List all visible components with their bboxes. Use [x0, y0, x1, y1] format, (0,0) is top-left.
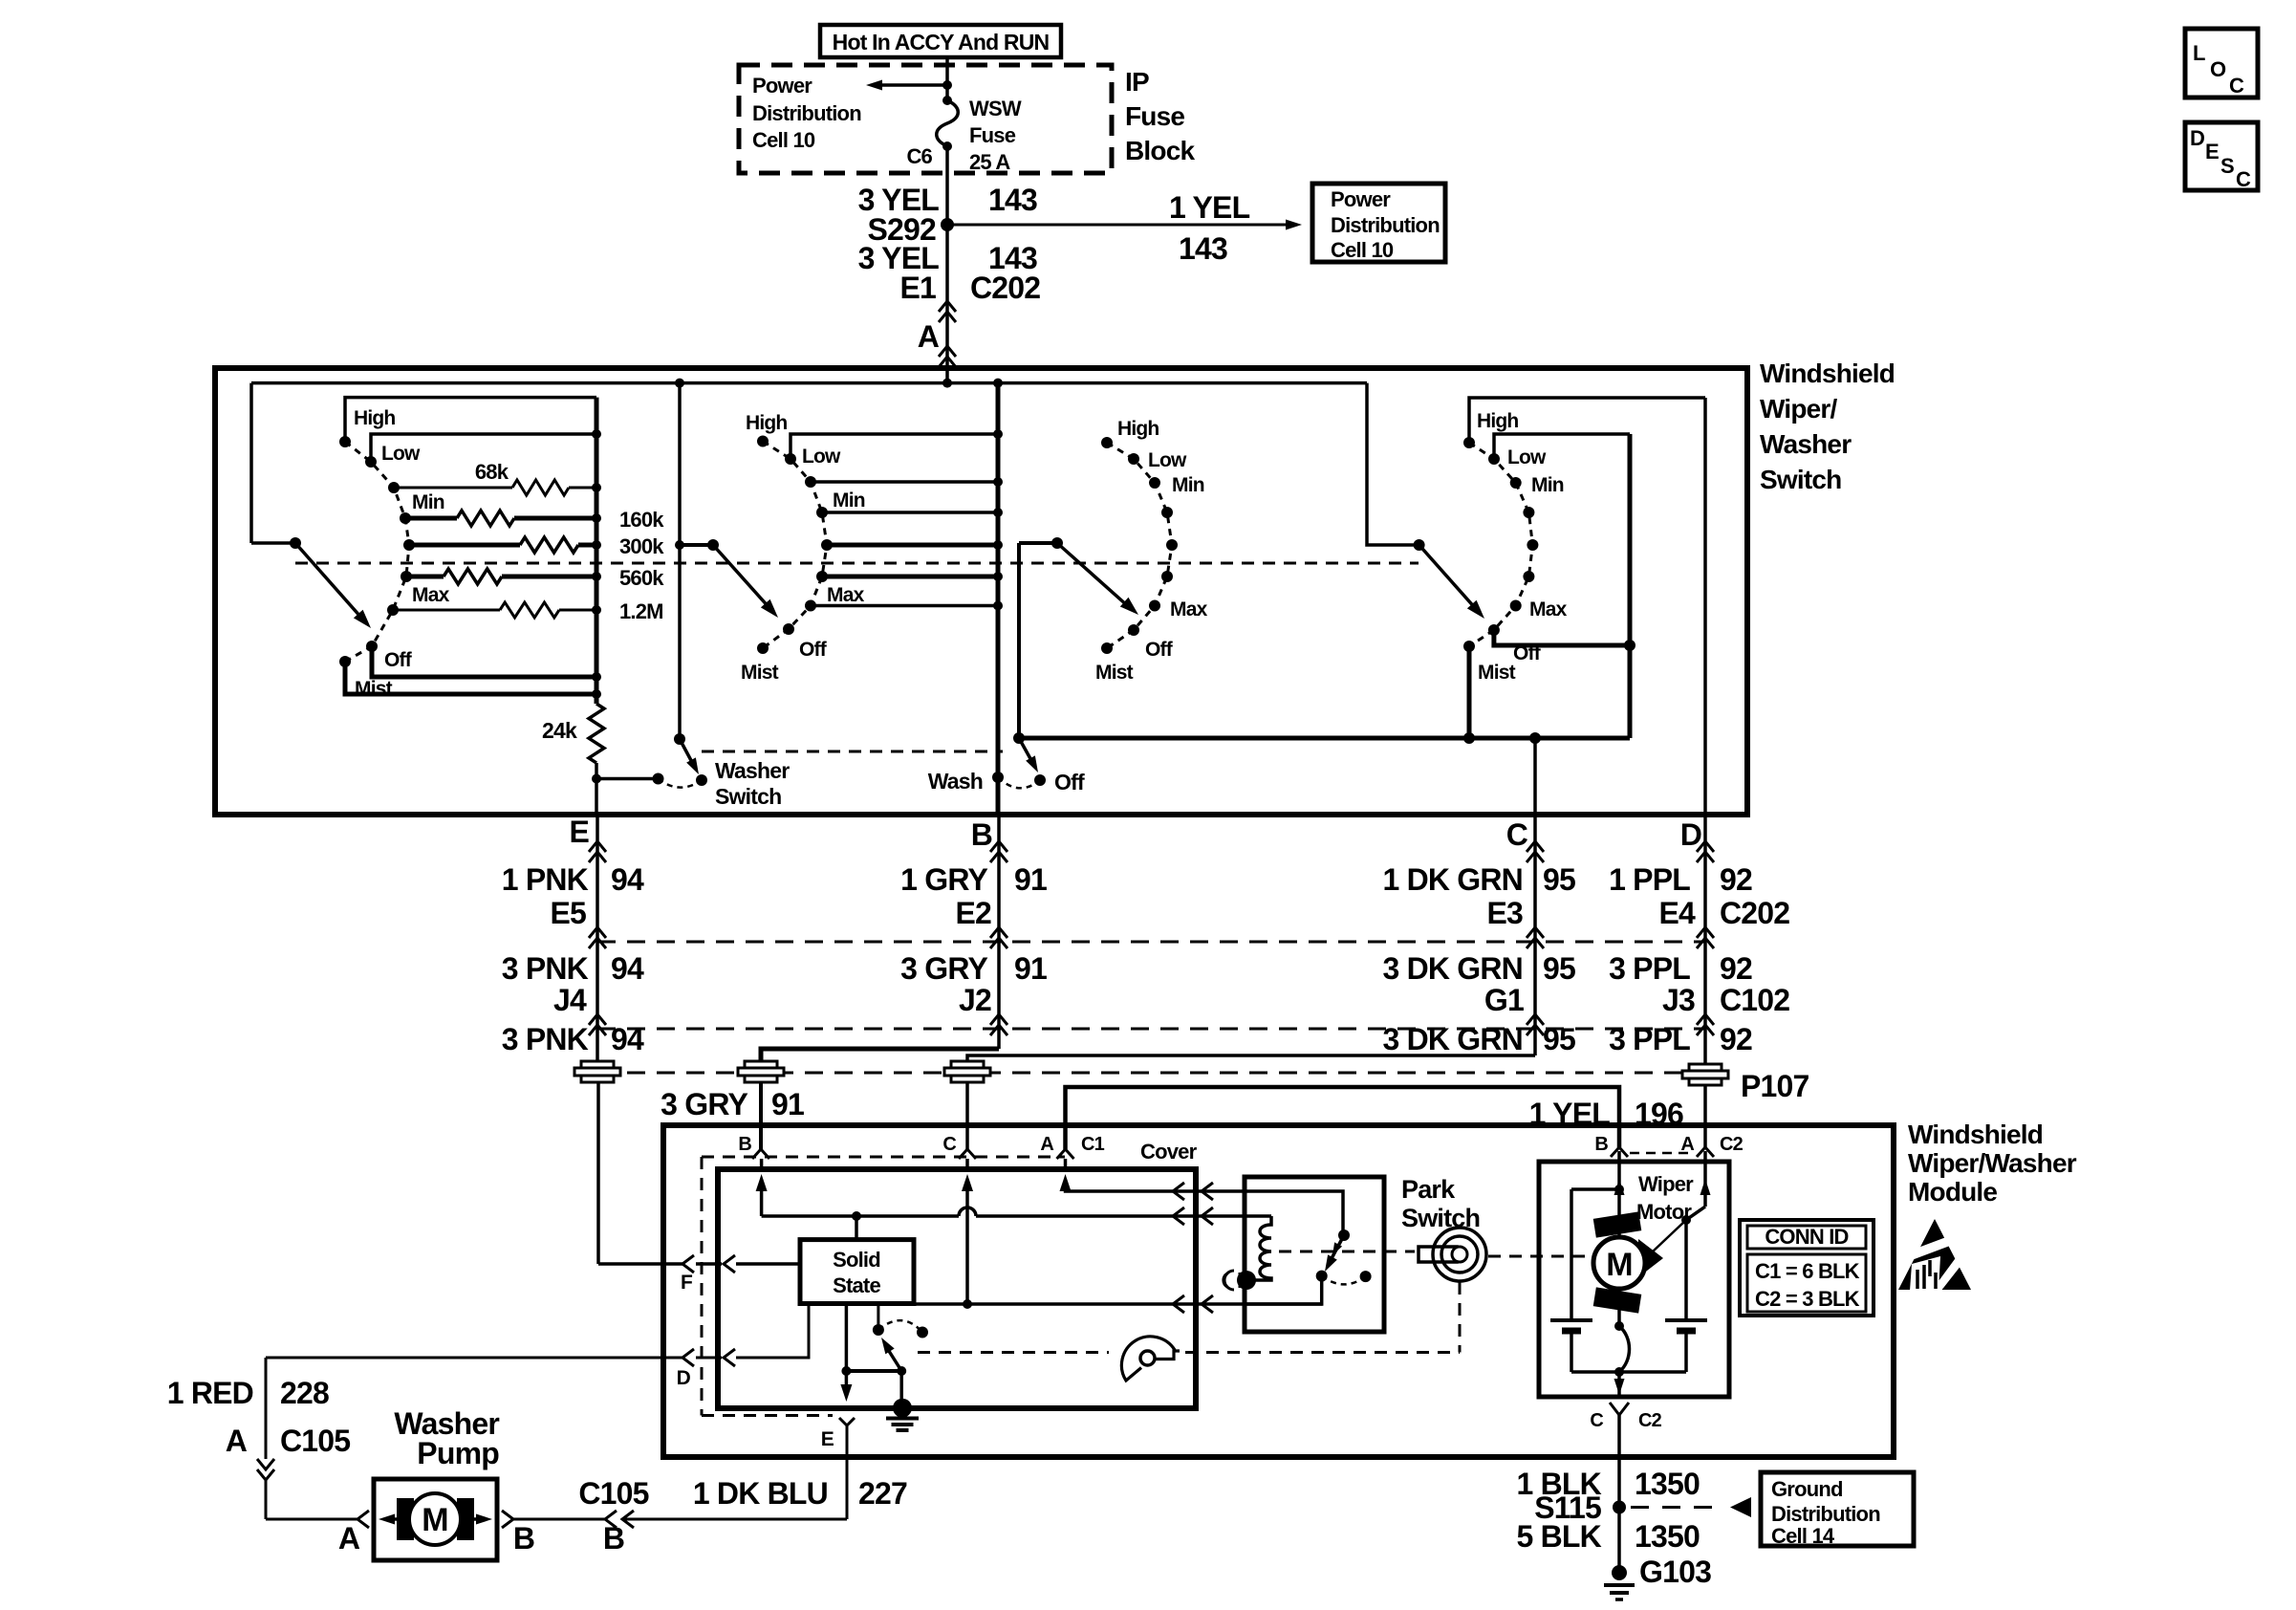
wire arrow to Power Distribution (left) inside fuse block: [880, 83, 947, 87]
svg-text:Power: Power: [752, 74, 812, 98]
switch 2 Max contact wire to B bus: [805, 600, 816, 612]
connector C102 dashed line: [597, 1028, 1705, 1031]
svg-text:91: 91: [1014, 862, 1047, 897]
svg-text:143: 143: [988, 183, 1037, 217]
junction dot: feed bus to B output bus: [993, 379, 1003, 388]
svg-text:High: High: [746, 412, 787, 434]
svg-text:F: F: [681, 1272, 693, 1294]
connector C202 chevrons (E5): [589, 927, 606, 938]
svg-text:1 GRY: 1 GRY: [900, 862, 987, 897]
svg-text:Wash: Wash: [928, 769, 983, 794]
legend box DESC (top right): [2185, 122, 2258, 190]
case ground symbol: [1239, 1273, 1242, 1288]
switch 1 contact arc (dashed): [345, 442, 409, 662]
wash contact on B bus: [992, 772, 1004, 783]
wire: pin F input to solid state: [596, 1081, 600, 1264]
module internal ground: [893, 1399, 912, 1418]
dashed reference to Ground Distribution Cell 14: [1631, 1506, 1716, 1509]
junction dot solid state top feed: [852, 1211, 861, 1221]
svg-text:Park: Park: [1401, 1175, 1456, 1204]
park switch blade top contact: [1338, 1229, 1350, 1241]
svg-text:High: High: [354, 407, 395, 429]
switch 2 High contact: [757, 436, 769, 447]
switch 4 contact arc (dashed): [1469, 443, 1532, 646]
connector C102 chevrons (G1): [1527, 1014, 1544, 1025]
svg-text:Off: Off: [799, 639, 828, 661]
grommet on pin E wire at P107: [581, 1061, 614, 1068]
connector C105 chevrons (down): [257, 1459, 274, 1469]
junction dot on feed wire: [942, 80, 952, 90]
svg-text:Distribution: Distribution: [752, 101, 861, 125]
svg-text:1 DK GRN: 1 DK GRN: [1382, 862, 1523, 897]
svg-text:1350: 1350: [1635, 1519, 1700, 1554]
svg-text:Max: Max: [412, 584, 450, 606]
svg-text:State: State: [833, 1273, 880, 1297]
module connector C1 pin C: [959, 1149, 976, 1159]
module connector C2 pin B: [1611, 1147, 1628, 1157]
switch 4 High contact and wire to pin D leg: [1463, 437, 1475, 448]
svg-text:Off: Off: [1145, 639, 1174, 661]
svg-text:Cell 10: Cell 10: [752, 128, 815, 152]
switch 4 Off/Low bus down to common line: [1628, 434, 1633, 738]
svg-text:C1 = 6 BLK: C1 = 6 BLK: [1755, 1259, 1860, 1283]
switch 2 delay contact wire to B bus: [805, 476, 816, 488]
svg-text:3 GRY: 3 GRY: [900, 951, 987, 986]
wire: solid state ground/output leg down: [845, 1304, 849, 1389]
svg-text:3 PPL: 3 PPL: [1609, 1022, 1690, 1056]
pin B wire down, jog left and to module pin B: [997, 815, 1001, 1049]
mechanical dashed link cam to park switch: [918, 1351, 1109, 1354]
svg-text:M: M: [1606, 1247, 1633, 1283]
svg-text:D: D: [677, 1367, 691, 1389]
wire: battery feed into fuse block at x=991: [945, 57, 949, 100]
washer switch actuator arrow: [680, 739, 694, 766]
left brush plates: [1550, 1318, 1592, 1322]
svg-text:Mist: Mist: [355, 678, 393, 700]
svg-text:143: 143: [1179, 231, 1227, 266]
svg-text:3 PPL: 3 PPL: [1609, 951, 1690, 986]
switch 2 contact arc (dashed): [763, 442, 827, 649]
switch 2 560k-row contact wire to B bus: [816, 571, 828, 582]
svg-text:Solid: Solid: [833, 1248, 880, 1272]
svg-text:B: B: [971, 817, 992, 852]
svg-text:C: C: [2229, 74, 2244, 98]
svg-text:Low: Low: [1148, 449, 1187, 471]
svg-text:25 A: 25 A: [969, 150, 1010, 174]
svg-text:Cell 10: Cell 10: [1331, 238, 1394, 262]
svg-text:B: B: [513, 1521, 534, 1556]
svg-text:E5: E5: [550, 896, 586, 930]
splice S115: [1613, 1501, 1626, 1514]
switch 1 Max contact and 1.2M resistor to bus: [387, 604, 399, 616]
svg-text:Low: Low: [1507, 446, 1547, 468]
switch 1 Mist contact and wire to bus: [339, 656, 351, 667]
washer switch moving contact: [696, 774, 707, 786]
wire: pin D leg (High feed): [1703, 398, 1707, 815]
svg-text:C202: C202: [970, 271, 1040, 305]
wire: solid state to B line: [855, 1216, 858, 1240]
svg-text:E: E: [821, 1428, 834, 1450]
box: Power Distribution Cell 10 (right): [1312, 184, 1445, 262]
park switch dashed throw arc: [1322, 1276, 1366, 1285]
svg-text:1 DK BLU: 1 DK BLU: [693, 1476, 828, 1511]
svg-text:3 GRY: 3 GRY: [661, 1087, 747, 1121]
svg-text:C: C: [2236, 167, 2251, 191]
resistor 24k in series with bus: [589, 704, 604, 763]
wire: solid state right output to park switch left contact: [914, 1302, 1323, 1306]
svg-text:S: S: [2220, 154, 2234, 178]
mechanical link of four switch wipers (dashed): [295, 562, 1419, 565]
svg-text:E2: E2: [955, 896, 991, 930]
washer pump pin B: [502, 1511, 513, 1528]
svg-text:3 DK GRN: 3 DK GRN: [1382, 1022, 1523, 1056]
grommet on pin D wire at P107: [1689, 1064, 1722, 1071]
svg-text:1 RED: 1 RED: [167, 1376, 253, 1410]
pin D wire down through P107 to module pin A: [1703, 815, 1707, 1064]
wire: 1 YEL 143 branch to Power Distribution Cell 10: [947, 224, 1287, 227]
bottom bus of motor: [1571, 1370, 1686, 1374]
svg-text:560k: 560k: [619, 566, 664, 590]
connector C2 dashed link between pins: [1630, 1152, 1695, 1155]
svg-text:Windshield: Windshield: [1908, 1120, 2043, 1149]
junction dot actuator leg at switch2 pivot row: [675, 540, 684, 550]
park switch coil ground dot on case: [1237, 1271, 1256, 1290]
svg-text:227: 227: [858, 1476, 907, 1511]
svg-text:A: A: [226, 1424, 248, 1458]
svg-text:C: C: [942, 1134, 956, 1155]
svg-text:94: 94: [611, 1022, 644, 1056]
switch 2 Min contact wire to B bus: [816, 507, 828, 518]
wire: S292 down to connector C202 pin E1: [945, 225, 949, 383]
svg-text:94: 94: [611, 951, 644, 986]
cover dashed boundary: [702, 1156, 1065, 1159]
svg-text:A: A: [338, 1521, 360, 1556]
switch 1 300k contact row resistor to bus: [403, 539, 415, 551]
svg-text:C2: C2: [1638, 1410, 1662, 1431]
pass-through P107 dashed line: [597, 1072, 1705, 1075]
grommet on pin B wire at P107: [745, 1061, 777, 1068]
svg-text:Max: Max: [1529, 598, 1568, 620]
pin E wire down to grommet: [596, 815, 599, 1061]
label box: Hot In ACCY And RUN: [820, 25, 1061, 57]
svg-text:68k: 68k: [475, 460, 509, 484]
cover pin C entry arrow and drop to park return line: [965, 1159, 969, 1169]
wire: module pin C to ground G103 (1 BLK 1350): [1617, 1415, 1621, 1566]
svg-text:Mist: Mist: [1095, 662, 1134, 684]
svg-text:Distribution: Distribution: [1331, 213, 1440, 237]
internal switch dashed throw arc: [878, 1320, 922, 1332]
wire: motor to C2 pin C with arrow out: [1617, 1372, 1621, 1397]
svg-text:E4: E4: [1658, 896, 1696, 930]
svg-text:Power: Power: [1331, 187, 1391, 211]
wire: feed drop to switch 1 wiper pivot: [249, 383, 253, 543]
svg-text:Wiper: Wiper: [1638, 1172, 1694, 1196]
park switch box: [1245, 1177, 1384, 1332]
svg-text:D: D: [2190, 126, 2204, 150]
switch 4 contacts Min..row contacts: [1510, 477, 1522, 489]
svg-text:C: C: [1506, 817, 1528, 852]
svg-text:B: B: [1594, 1134, 1608, 1155]
connector C202 chevrons on wire A: [939, 301, 956, 312]
wire: 1 RED 228 from module pin D to washer pump: [265, 1358, 268, 1459]
switch 3 wiper blade arrow: [1057, 543, 1128, 606]
svg-text:94: 94: [611, 862, 644, 897]
svg-text:A: A: [1680, 1134, 1694, 1155]
solid state module box: [800, 1240, 914, 1304]
fuse F1: WSW Fuse 25A element: [942, 96, 952, 105]
arrowheads where B line crosses cover wall: [1173, 1207, 1184, 1225]
module connector C1 pin A: [1057, 1149, 1074, 1159]
module pin C (C2) below motor: [1610, 1403, 1629, 1415]
switch 3 wiper pivot, stub and leg to common line: [1051, 537, 1063, 549]
wiper cam symbol (crank and lobe): [1121, 1337, 1175, 1381]
wire: 1 YEL 196 jumper from module C1-A to C2-B: [1066, 1087, 1620, 1149]
svg-text:Fuse: Fuse: [969, 123, 1016, 147]
connector C102 chevrons (J4): [589, 1014, 606, 1025]
svg-text:G1: G1: [1484, 983, 1524, 1017]
svg-text:Mist: Mist: [1478, 662, 1516, 684]
ESD sensitivity symbol: [1898, 1219, 1971, 1290]
svg-text:Low: Low: [802, 446, 841, 468]
svg-text:3 PNK: 3 PNK: [502, 951, 589, 986]
grommet on pin C wire at P107: [951, 1061, 984, 1068]
wire: left contact to return line: [1245, 1276, 1322, 1304]
splice S292: [941, 218, 954, 231]
connector C102 chevrons (J2): [990, 1014, 1007, 1025]
svg-text:WSW: WSW: [969, 97, 1022, 120]
svg-text:Washer: Washer: [1760, 429, 1852, 459]
junction dot: pin A to feed bus: [942, 379, 952, 388]
park knob shaft: [1419, 1247, 1457, 1262]
washer switch 2 dashed throw arc: [998, 777, 1040, 788]
svg-text:J2: J2: [959, 983, 991, 1017]
svg-text:Distribution: Distribution: [1771, 1502, 1880, 1526]
svg-text:92: 92: [1720, 862, 1752, 897]
park switch blade with double arrow: [1329, 1235, 1344, 1264]
svg-text:A: A: [918, 319, 940, 354]
svg-text:Hot In ACCY And RUN: Hot In ACCY And RUN: [833, 30, 1050, 54]
switch 1 wiper blade arrow: [295, 543, 361, 618]
connector C202 chevrons (E2): [990, 927, 1007, 938]
svg-text:Wiper/: Wiper/: [1760, 394, 1838, 424]
mechanical dashed knob to motor: [1488, 1255, 1591, 1258]
module pin E: [839, 1418, 855, 1425]
svg-text:Switch: Switch: [1760, 465, 1841, 494]
svg-text:91: 91: [1014, 951, 1047, 986]
svg-text:C6: C6: [906, 144, 932, 168]
svg-text:Min: Min: [1172, 474, 1204, 496]
switch 1 Min contact and 160k resistor to bus: [400, 512, 411, 524]
svg-text:Low: Low: [381, 443, 421, 465]
legend box LOC (top right): [2185, 29, 2258, 98]
svg-text:24k: 24k: [542, 718, 577, 743]
pin C wire down, jog left to grommet and module pin C: [1533, 815, 1537, 1055]
svg-text:1350: 1350: [1635, 1467, 1700, 1501]
switch 4 Max contact: [1510, 600, 1522, 612]
svg-text:1 PNK: 1 PNK: [502, 862, 589, 897]
module pin D: [682, 1349, 694, 1366]
washer pump motor circle: [409, 1493, 461, 1545]
svg-text:95: 95: [1543, 951, 1575, 986]
svg-text:Wiper/Washer: Wiper/Washer: [1908, 1148, 2077, 1178]
svg-text:C102: C102: [1720, 983, 1789, 1017]
switch 1 wiper pivot: [290, 537, 301, 549]
internal switch blade with arrow: [887, 1348, 901, 1371]
svg-text:Off: Off: [1054, 770, 1085, 794]
internal switch fixed contact: [873, 1324, 884, 1336]
arrowheads where return line crosses cover wall: [1173, 1295, 1184, 1313]
connector C202 dashed line: [597, 941, 1705, 944]
svg-text:300k: 300k: [619, 534, 664, 558]
switch 2 300k-row contact wire to B bus: [821, 539, 833, 551]
switch output bus B (to pin B): [996, 383, 1001, 815]
svg-text:B: B: [738, 1134, 751, 1155]
pin C chevrons: [1527, 841, 1544, 852]
svg-text:3 DK GRN: 3 DK GRN: [1382, 951, 1523, 986]
svg-text:J3: J3: [1662, 983, 1695, 1017]
washer switch 2 moving contact (Off): [1034, 774, 1046, 786]
svg-text:228: 228: [280, 1376, 329, 1410]
svg-text:95: 95: [1543, 862, 1575, 897]
box: Windshield Wiper/Washer Switch: [215, 368, 1747, 815]
svg-text:Ground: Ground: [1771, 1477, 1843, 1501]
internal switch moving contact: [917, 1327, 928, 1338]
park knob rings: [1433, 1228, 1486, 1281]
svg-text:Max: Max: [827, 584, 865, 606]
switch 1 560k contact row resistor to bus: [401, 571, 412, 582]
switch 1 output bus (to pin E): [595, 398, 599, 704]
washer switches mechanical link (dashed): [702, 751, 1003, 753]
internal switch pivot junction: [897, 1366, 906, 1376]
wire: pump B to C105 and module pin E (1 DK BLU 227): [513, 1518, 605, 1521]
motor M circle: [1593, 1237, 1645, 1289]
switch 2 Off contact: [783, 623, 794, 635]
svg-text:E: E: [569, 815, 589, 849]
svg-text:High: High: [1477, 410, 1518, 432]
svg-text:B: B: [603, 1521, 624, 1556]
arrowhead D line at cover wall: [724, 1349, 735, 1366]
switch 3 contact arc (dashed): [1107, 443, 1172, 648]
brush feed diagonal to motor: [1652, 1220, 1686, 1252]
wire: fuse output down to splice S292: [945, 146, 949, 225]
washer pump box: [374, 1479, 497, 1560]
IP Fuse Block dashed boundary: [739, 65, 1112, 173]
svg-text:Module: Module: [1908, 1177, 1997, 1207]
svg-text:IP: IP: [1125, 67, 1149, 97]
svg-text:Max: Max: [1170, 598, 1208, 620]
svg-text:3 PNK: 3 PNK: [502, 1022, 589, 1056]
washer pump arrows: [386, 1517, 409, 1521]
connector C202 chevrons (E3): [1527, 927, 1544, 938]
module connector C2 pin A: [1697, 1147, 1714, 1157]
svg-text:J4: J4: [553, 983, 587, 1017]
washer pump brush pads: [397, 1498, 414, 1540]
mechanical dashed coil to knob: [1279, 1251, 1415, 1253]
common line from switch 3 leg to switch 4 bus / pin C: [1019, 736, 1630, 741]
svg-text:C1: C1: [1081, 1134, 1105, 1155]
svg-text:A: A: [1040, 1134, 1053, 1155]
switch 1 High contact and wire to bus: [339, 436, 351, 447]
junction dot: feed bus to washer-switch leg x=711: [675, 379, 684, 388]
switch 4 Mist contact and leg to common line: [1463, 641, 1475, 652]
svg-text:High: High: [1117, 418, 1159, 440]
cover solid box: [718, 1169, 1196, 1408]
svg-text:Off: Off: [1513, 642, 1542, 664]
connector C105 chevrons on DK BLU wire: [605, 1511, 617, 1528]
svg-text:CONN ID: CONN ID: [1765, 1225, 1848, 1249]
switch 2 Mist contact: [757, 642, 769, 654]
arrowheads where A line crosses cover wall: [1173, 1183, 1184, 1200]
svg-text:C: C: [1590, 1410, 1603, 1431]
resistor 68k between Low-step contact and bus: [388, 482, 400, 493]
motor brush branch left: [1614, 1185, 1624, 1194]
svg-text:95: 95: [1543, 1022, 1575, 1056]
svg-text:Windshield: Windshield: [1760, 359, 1895, 388]
svg-text:E3: E3: [1486, 896, 1523, 930]
svg-text:Off: Off: [384, 649, 413, 671]
wire: blade pivot to module ground: [899, 1371, 903, 1402]
svg-text:5 BLK: 5 BLK: [1517, 1519, 1602, 1554]
svg-text:Switch: Switch: [715, 784, 781, 809]
washer switch 2 actuator arrow: [1019, 738, 1033, 764]
svg-text:1 YEL: 1 YEL: [1169, 190, 1250, 225]
wire: C2 pin A into motor plus arrow: [1703, 1151, 1707, 1207]
module connector C1 pin B: [752, 1149, 769, 1159]
washer switch wire from 24k to contact: [596, 777, 659, 781]
pin D chevrons: [1697, 841, 1714, 852]
junction dot actuator leg bottom: [674, 733, 685, 745]
motor commutator pads: [1593, 1211, 1642, 1237]
park switch right contact: [1360, 1271, 1372, 1282]
switch 2 wiper pivot and stub: [680, 543, 713, 547]
park switch relay coil: [1248, 1216, 1271, 1280]
washer switch dashed throw arc: [659, 779, 703, 788]
svg-text:Washer: Washer: [715, 758, 790, 783]
svg-text:M: M: [422, 1502, 448, 1538]
svg-text:1.2M: 1.2M: [619, 599, 663, 623]
svg-text:E: E: [2205, 140, 2219, 163]
switch 4 Low contact and bracket to Off bus: [1488, 453, 1500, 465]
wire: pin C leg from common line: [1533, 738, 1537, 815]
internal line from pin B with crossover to park switch: [762, 1214, 959, 1218]
connector C102 chevrons (J3): [1697, 1014, 1714, 1025]
internal run/park switch stub from return line: [877, 1304, 879, 1330]
svg-text:Cover: Cover: [1140, 1140, 1198, 1164]
svg-text:L: L: [2193, 41, 2205, 65]
wire: C2 pin B into motor plus arrow: [1617, 1151, 1621, 1189]
cover pin A entry arrow and line to park switch: [1064, 1159, 1068, 1169]
svg-text:Pump: Pump: [417, 1436, 499, 1470]
washer switch actuator leg from feed bus: [678, 383, 682, 739]
svg-text:C105: C105: [578, 1476, 648, 1511]
wiper motor box: [1539, 1162, 1729, 1397]
ground G103 symbol: [1612, 1565, 1627, 1580]
washer switch left fixed contact: [653, 773, 664, 785]
svg-text:1 PPL: 1 PPL: [1609, 862, 1690, 897]
CONN ID table: [1740, 1220, 1874, 1316]
svg-text:P107: P107: [1741, 1069, 1809, 1103]
switch 1 Low contact and wire to bus: [365, 456, 377, 468]
wire: pin D input to solid state: [266, 1357, 682, 1360]
switch 4 feed drop from top bus and pivot stub: [1367, 383, 1419, 545]
svg-text:Min: Min: [1531, 474, 1564, 496]
motor armature centre path with curve: [1617, 1189, 1621, 1326]
svg-text:E1: E1: [899, 271, 936, 305]
wire: internal feed bus from pin A along box top: [251, 381, 1367, 385]
box: Ground Distribution Cell 14: [1761, 1472, 1914, 1546]
washer pump pin A: [357, 1511, 369, 1528]
park switch left contact: [1316, 1271, 1328, 1282]
